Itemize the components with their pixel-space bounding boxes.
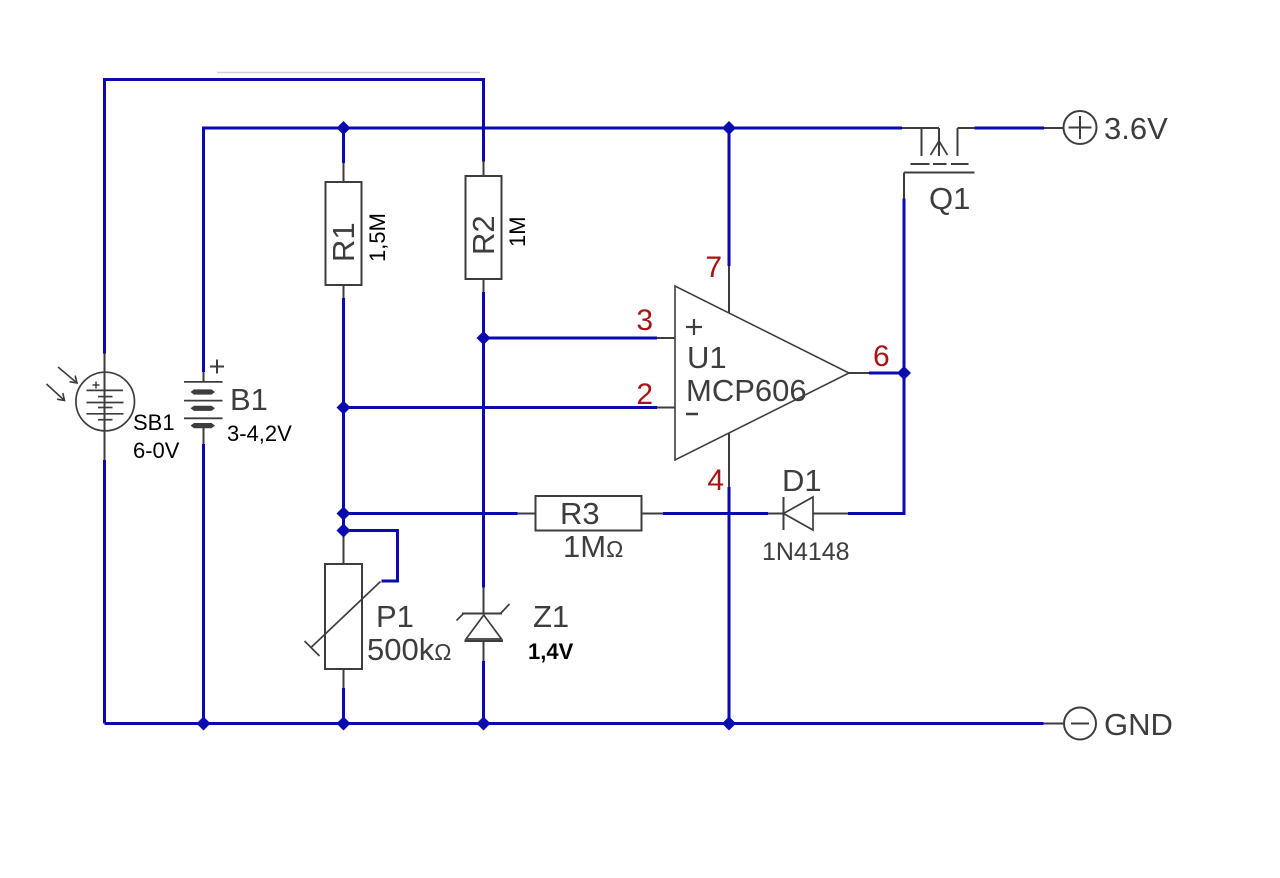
svg-text:B1: B1	[230, 382, 268, 417]
terminal +3.6V	[1064, 111, 1097, 144]
svg-text:3: 3	[636, 304, 653, 337]
svg-text:7: 7	[705, 251, 722, 284]
diode D1	[783, 497, 785, 530]
svg-text:P1: P1	[376, 599, 414, 634]
wire R3 row left	[344, 512, 518, 515]
zener diode Z1	[462, 613, 502, 615]
svg-text:4: 4	[707, 464, 724, 497]
wire R1 column top	[342, 128, 345, 163]
resistor R3	[536, 496, 642, 531]
wire op-amp pin 7	[728, 128, 731, 266]
op-amp U1	[675, 286, 849, 460]
resistor R1	[326, 182, 362, 285]
wire Z1 bottom to GND rail	[483, 641, 485, 661]
wire op-amp output pin 6	[849, 372, 869, 374]
battery B1	[184, 381, 223, 383]
wire GND rail	[105, 722, 1044, 725]
resistor R2	[466, 176, 502, 279]
svg-text:6-0V: 6-0V	[133, 438, 180, 463]
svg-text:D1: D1	[782, 463, 822, 498]
svg-text:U1: U1	[687, 340, 727, 375]
wire op-amp pin 3	[484, 337, 658, 340]
svg-text:6: 6	[873, 340, 890, 373]
wire R3 to D1	[642, 513, 664, 515]
svg-text:1,5M: 1,5M	[365, 213, 390, 262]
wire P1 wiper	[344, 531, 398, 582]
wire B1 leads	[203, 372, 205, 382]
wire VCC row B1+ to Q1	[204, 128, 903, 372]
svg-text:3.6V: 3.6V	[1104, 111, 1168, 146]
svg-text:500kΩ: 500kΩ	[367, 632, 451, 667]
wire Q1 gate to node 6 and down to D1	[903, 173, 905, 199]
terminal GND	[1064, 708, 1096, 740]
potentiometer P1	[325, 564, 362, 669]
svg-text:1M: 1M	[505, 216, 530, 247]
svg-text:R2: R2	[466, 215, 501, 255]
wire Q1 right to 3.6V terminal	[975, 127, 1045, 130]
svg-text:MCP606: MCP606	[686, 373, 807, 408]
svg-text:2: 2	[636, 378, 653, 411]
wire R2 bottom to Z1 top	[482, 292, 485, 588]
svg-text:R1: R1	[326, 222, 361, 262]
svg-text:R3: R3	[560, 496, 600, 531]
wire op-amp pin 2	[344, 406, 658, 409]
wire op-amp pin 4 to GND	[728, 433, 730, 487]
wire R1 bottom to P1 top	[343, 285, 345, 298]
light arrow 1	[58, 367, 77, 383]
solar cell SB1	[76, 372, 135, 431]
svg-text:1,4V: 1,4V	[528, 639, 574, 664]
svg-text:Q1: Q1	[929, 181, 970, 216]
node junction dots	[197, 121, 912, 731]
wire R2 leads	[483, 162, 485, 177]
svg-text:SB1: SB1	[133, 410, 175, 435]
svg-text:3-4,2V: 3-4,2V	[227, 421, 292, 446]
faint artifact line	[217, 72, 480, 74]
wire top net SB1+ to R2 top	[105, 80, 484, 354]
light arrow 2	[47, 384, 65, 401]
svg-text:Z1: Z1	[533, 599, 569, 634]
svg-text:GND: GND	[1104, 707, 1173, 742]
svg-text:1MΩ: 1MΩ	[563, 529, 623, 564]
svg-text:1N4148: 1N4148	[762, 538, 850, 566]
wire P1 bottom to GND rail	[343, 669, 345, 688]
transistor Q1	[902, 127, 939, 129]
wire SB1 leads	[104, 354, 106, 461]
